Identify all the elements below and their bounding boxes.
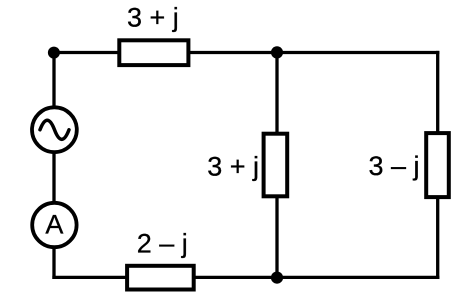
wire right vertical <box>436 53 439 278</box>
svg-text:3 + j: 3 + j <box>207 151 259 181</box>
resistor R2 (3 + j, middle vertical) <box>264 134 288 197</box>
svg-text:A: A <box>45 209 63 239</box>
wire top horizontal <box>54 51 438 54</box>
wire bottom horizontal <box>54 276 438 279</box>
wire middle vertical <box>275 53 278 278</box>
resistor R3 (3 − j, right vertical) <box>426 133 449 197</box>
AC source sine wave <box>40 120 69 139</box>
wire left vertical <box>52 53 55 278</box>
node top-middle <box>271 46 283 58</box>
svg-text:3 + j: 3 + j <box>127 3 179 33</box>
ammeter A1 <box>32 203 76 247</box>
resistor R4 (2 − j, bottom) <box>127 266 194 290</box>
AC source V1 <box>32 107 77 152</box>
svg-text:2 – j: 2 – j <box>137 229 188 259</box>
resistor R1 (3 + j, top) <box>119 40 188 65</box>
svg-text:3 – j: 3 – j <box>369 151 420 181</box>
node top-left <box>48 47 60 59</box>
node bottom-middle <box>271 272 283 284</box>
